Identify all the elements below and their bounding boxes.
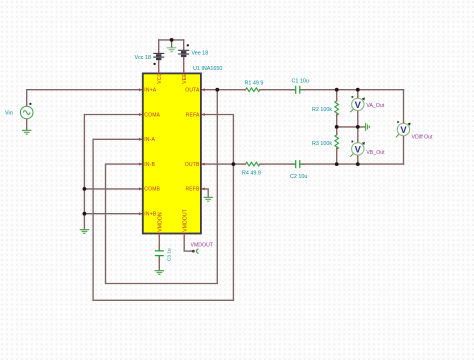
wire VDiff vertical bbox=[403, 90, 405, 164]
svg-text:V: V bbox=[355, 99, 362, 110]
red pin labels bbox=[144, 72, 200, 231]
svg-text:VCC: VCC bbox=[157, 72, 163, 83]
pin arrows left bbox=[139, 88, 143, 215]
meter VB_Out bbox=[350, 141, 365, 158]
battery Vee 18 bbox=[178, 50, 189, 56]
ground middle rail right-facing bbox=[366, 123, 370, 131]
wire IN-A outer loop to REFA bbox=[93, 115, 233, 301]
svg-text:C1 10u: C1 10u bbox=[292, 79, 309, 85]
junction node VB bottom bbox=[335, 162, 339, 166]
wire Vin to IN+A bbox=[27, 90, 143, 107]
junction mid meter tap bbox=[356, 125, 360, 129]
wire COMB to bus bbox=[84, 188, 142, 190]
svg-text:V: V bbox=[400, 124, 407, 135]
ground top center bbox=[167, 48, 176, 52]
svg-text:OUTA: OUTA bbox=[185, 88, 200, 94]
junction VB meter bottom bbox=[356, 162, 360, 166]
capacitor C3 1u bbox=[155, 245, 164, 261]
wire Vin to ground bbox=[26, 119, 28, 130]
svg-text:COMA: COMA bbox=[144, 112, 160, 118]
ground C3 bbox=[155, 271, 164, 275]
pin stubs red top/bottom bbox=[159, 69, 185, 238]
svg-text:VDiff Out: VDiff Out bbox=[412, 134, 434, 140]
wire middle rail bbox=[337, 126, 365, 128]
svg-text:R3 100k: R3 100k bbox=[312, 141, 332, 147]
svg-text:OUTB: OUTB bbox=[185, 162, 200, 168]
junction COMB to ground bus bbox=[83, 187, 87, 191]
svg-text:Vin: Vin bbox=[5, 111, 13, 117]
svg-text:REFA: REFA bbox=[186, 112, 200, 118]
op-amp U1 INA1650 body bbox=[143, 73, 201, 233]
resistor R4 49.9 bbox=[243, 162, 263, 166]
svg-text:C3 1u: C3 1u bbox=[167, 248, 173, 261]
svg-text:VB_Out: VB_Out bbox=[366, 150, 385, 156]
svg-text:R4 49.9: R4 49.9 bbox=[242, 171, 261, 177]
svg-text:IN-A: IN-A bbox=[144, 137, 155, 143]
capacitor C1 10u bbox=[290, 86, 305, 94]
wire Vcc battery leads bbox=[158, 40, 160, 74]
svg-text:VMDOUT: VMDOUT bbox=[191, 243, 214, 249]
meter VDiff Out bbox=[396, 121, 411, 138]
junction mid divider bbox=[335, 125, 339, 129]
wire Vee battery leads bbox=[183, 40, 185, 74]
wire VMDON to C3 bbox=[158, 234, 160, 271]
svg-text:COMB: COMB bbox=[144, 187, 160, 193]
svg-text:VMDON: VMDON bbox=[158, 212, 164, 232]
resistor R1 49.9 bbox=[243, 88, 263, 92]
svg-text:U1 INA1650: U1 INA1650 bbox=[193, 66, 222, 72]
svg-text:VEE: VEE bbox=[182, 73, 188, 84]
purple output labels bbox=[191, 103, 434, 249]
wire top ground stub bbox=[171, 40, 173, 48]
wire COMA to ground bus bbox=[84, 115, 142, 230]
svg-text:REFB: REFB bbox=[185, 187, 200, 193]
svg-text:VMDOUT: VMDOUT bbox=[182, 209, 188, 232]
pin arrows right bbox=[201, 88, 205, 190]
wire VMDOUT to terminal bbox=[184, 234, 194, 252]
ground left bus bbox=[80, 230, 89, 234]
junction IN+B to ground bus bbox=[83, 212, 87, 216]
capacitor C2 10u bbox=[290, 160, 305, 168]
ground Vin bbox=[22, 130, 31, 134]
wire IN+B to bus bbox=[84, 213, 142, 215]
resistor R2 100k bbox=[335, 98, 339, 117]
svg-text:C2 10u: C2 10u bbox=[290, 174, 307, 180]
teal value labels bbox=[5, 50, 332, 261]
junction node VA top bbox=[335, 88, 339, 92]
source Vin bbox=[20, 103, 33, 121]
junction supply midpoint bbox=[170, 38, 174, 42]
wire battery top rail bbox=[159, 39, 184, 41]
ground REFB bbox=[204, 197, 213, 201]
wire OUTB row bbox=[201, 163, 404, 165]
battery Vcc 18 bbox=[153, 53, 164, 59]
svg-text:IN+B: IN+B bbox=[144, 212, 157, 218]
svg-text:Vee 18: Vee 18 bbox=[192, 50, 209, 56]
wire OUTA row bbox=[201, 89, 404, 91]
svg-text:Vcc 18: Vcc 18 bbox=[135, 55, 151, 61]
junction REFA-OUTB tie bbox=[232, 162, 236, 166]
junction VA meter top bbox=[356, 88, 360, 92]
meter VA_Out bbox=[350, 96, 365, 113]
wire VB branch bbox=[357, 127, 359, 164]
svg-text:IN-B: IN-B bbox=[144, 162, 155, 168]
svg-text:R2 100k: R2 100k bbox=[312, 107, 332, 113]
resistor R3 100k bbox=[335, 132, 339, 151]
terminal VMDOUT jack bbox=[192, 250, 195, 253]
wire REFB to ground bbox=[201, 189, 208, 197]
wire R2 R3 branch bbox=[336, 90, 338, 164]
svg-text:VA_Out: VA_Out bbox=[366, 103, 384, 109]
svg-text:V: V bbox=[355, 143, 362, 154]
wire VA branch bbox=[357, 90, 359, 127]
wire IN-B inner loop to OUTA bbox=[106, 90, 218, 284]
junction OUTA feedback tap bbox=[215, 88, 219, 92]
svg-text:IN+A: IN+A bbox=[144, 88, 157, 94]
svg-text:R1 49.9: R1 49.9 bbox=[245, 80, 264, 86]
